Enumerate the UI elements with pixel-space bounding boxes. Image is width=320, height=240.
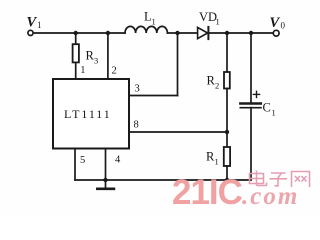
svg-text:V: V [270, 15, 281, 31]
svg-text:1: 1 [152, 17, 156, 27]
wire: ground rail bottom [75, 179, 251, 181]
IC U1 LT1111 body [53, 79, 129, 149]
wire: R1 bottom to ground rail [226, 166, 228, 180]
label Vi [27, 14, 42, 30]
label R1 [206, 150, 219, 167]
node: junction pin 8 wire / R2-R1 [225, 130, 229, 134]
node: junction top rail / pin 2 [106, 31, 110, 35]
svg-text:1: 1 [216, 17, 220, 27]
svg-text:21IC: 21IC [172, 173, 243, 212]
wire: top rail down to pin 2 of U1 [107, 33, 109, 79]
svg-text:LT1111: LT1111 [64, 107, 112, 121]
wire: riser from top rail down to pin 3 level [177, 33, 179, 96]
node: junction top rail / R3 [74, 31, 78, 35]
svg-text:C: C [263, 101, 271, 115]
label R3 [86, 49, 99, 66]
resistor R2 [224, 72, 230, 89]
wire: R2 bottom to R1 top [226, 89, 228, 148]
svg-text:L: L [144, 10, 152, 24]
svg-text:1: 1 [37, 20, 42, 30]
svg-text:.com: .com [242, 183, 299, 210]
label VD1 [199, 10, 220, 27]
label Vo [270, 15, 286, 31]
svg-text:5: 5 [80, 155, 85, 166]
svg-text:4: 4 [115, 155, 121, 166]
svg-text:V: V [27, 14, 38, 30]
node: junction R1 / ground rail [225, 178, 229, 182]
svg-text:VD: VD [199, 10, 217, 24]
svg-text:1: 1 [272, 108, 276, 118]
node: junction top rail / pin 3 riser [175, 31, 179, 35]
svg-text:3: 3 [135, 84, 140, 95]
wire: R2 top lead from top rail [226, 33, 228, 72]
svg-text:2: 2 [215, 81, 219, 91]
wire: top rail down to R3 [75, 33, 77, 44]
svg-text:1: 1 [215, 157, 219, 167]
diode VD1 [198, 27, 209, 39]
wire: C1 bottom lead to ground rail [250, 108, 252, 180]
resistor R1 [224, 147, 230, 166]
resistor R3 [73, 44, 79, 62]
svg-text:3: 3 [94, 56, 98, 66]
terminal Vo [273, 30, 279, 36]
label R2 [207, 74, 220, 91]
wire: pin 8 of U1 to R2/R1 junction [129, 131, 227, 133]
wire: C1 top lead from top rail [250, 33, 252, 103]
label L1 [144, 10, 156, 27]
ground [97, 178, 114, 189]
inductor L1 [125, 26, 167, 33]
wire: top rail from diode cathode to Vo terminal [209, 32, 273, 34]
terminal Vi [28, 30, 33, 35]
label C1 [263, 101, 276, 118]
svg-text:0: 0 [281, 21, 286, 31]
svg-text:2: 2 [112, 66, 117, 77]
watermark chinese 电子网 [250, 171, 310, 188]
wire: top rail from inductor to diode anode [168, 32, 198, 34]
wire: pin 3 of U1 horizontal [129, 95, 178, 97]
wire: pin 5 of U1 down to ground rail [74, 149, 76, 181]
capacitor C1 [240, 91, 261, 107]
wire: R3 to pin 1 of U1 [75, 62, 77, 79]
svg-text:1: 1 [80, 65, 85, 76]
node: junction top rail / C1 [249, 31, 253, 35]
wire: pin 4 of U1 down to ground rail [105, 149, 107, 181]
svg-text:8: 8 [134, 120, 139, 131]
wire: top rail from Vi terminal to inductor [33, 32, 125, 34]
node: junction top rail / R2 [225, 31, 229, 35]
